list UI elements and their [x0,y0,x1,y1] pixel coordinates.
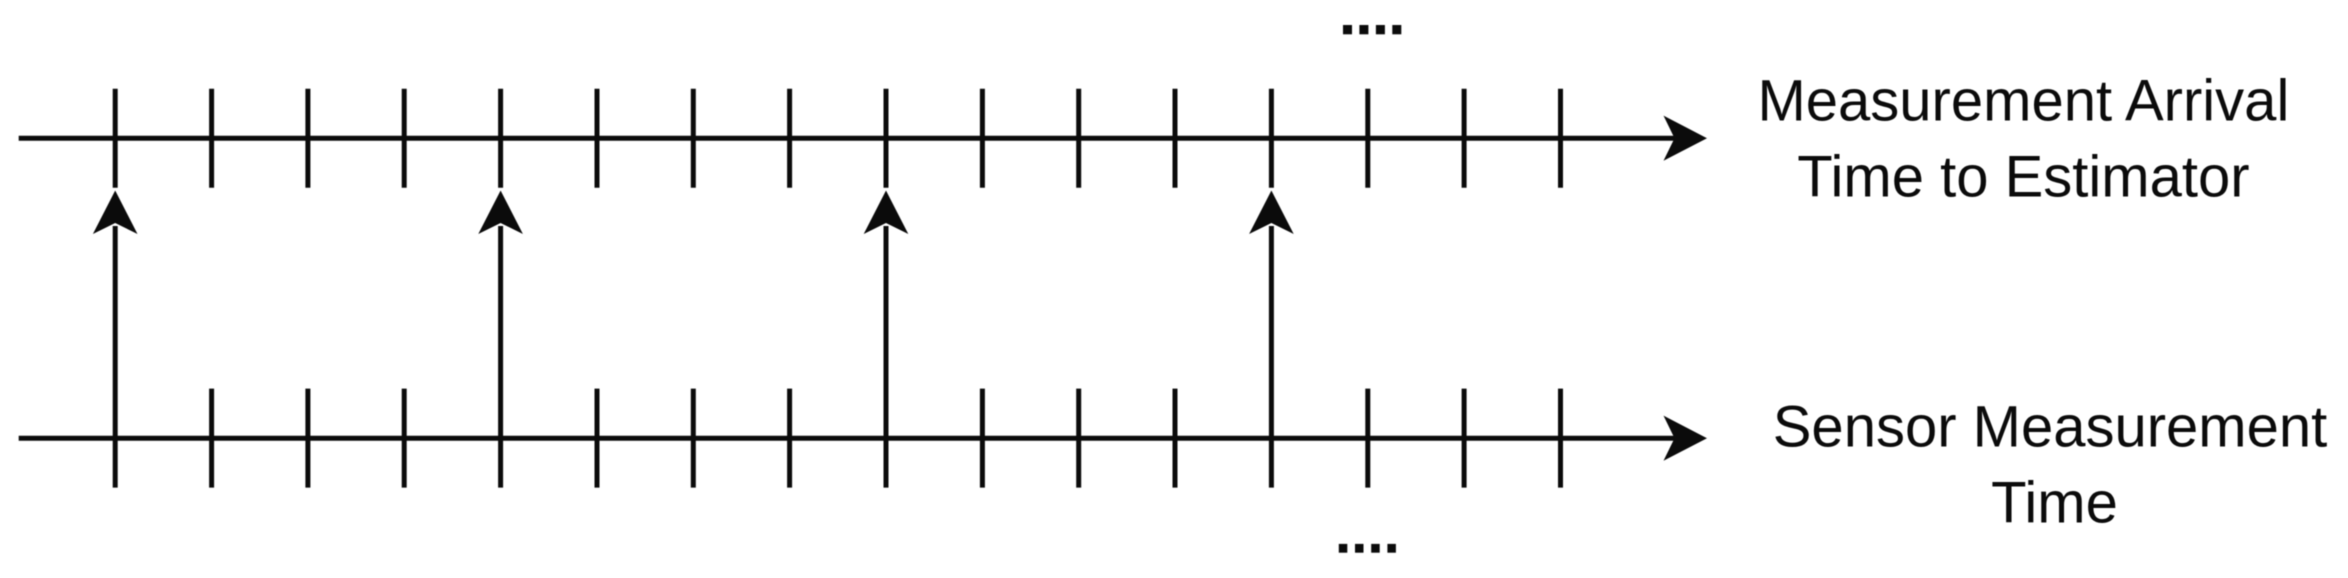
svg-text:Measurement Arrival: Measurement Arrival [1757,69,2289,134]
bottom timeline tick 8 [787,389,792,488]
svg-text:Sensor Measurement: Sensor Measurement [1773,395,2327,460]
svg-text:Time to Estimator: Time to Estimator [1797,145,2249,210]
bottom timeline tick 3 [305,389,310,488]
top timeline tick 5 [498,89,503,188]
bottom timeline tick 15 [1462,389,1467,488]
bottom timeline tick 10 [980,389,985,488]
measurement transfer arrow 2 shaft [498,226,503,488]
top timeline tick 1 [113,89,118,188]
ellipsis dots (bottom timeline continues) [1339,544,1348,553]
bottom timeline tick 4 [402,389,407,488]
measurement transfer arrow 1 shaft [113,226,118,488]
bottom timeline tick 16 [1558,389,1563,488]
measurement transfer arrow 4 head [1249,191,1294,235]
top timeline tick 11 [1076,89,1081,188]
top timeline tick 8 [787,89,792,188]
top timeline tick 15 [1462,89,1467,188]
bottom timeline tick 14 [1365,389,1370,488]
top timeline tick 7 [691,89,696,188]
top timeline tick 3 [305,89,310,188]
top timeline tick 2 [209,89,214,188]
measurement transfer arrow 2 head [478,191,523,235]
bottom timeline tick 7 [691,389,696,488]
top timeline tick 10 [980,89,985,188]
measurement transfer arrow 1 head [93,191,138,235]
bottom timeline tick 12 [1173,389,1178,488]
bottom timeline tick 6 [595,389,600,488]
bottom axis arrowhead [1664,416,1708,461]
top timeline tick 14 [1365,89,1370,188]
top timeline tick 16 [1558,89,1563,188]
top timeline tick 4 [402,89,407,188]
top axis arrowhead [1664,116,1708,161]
bottom timeline tick 11 [1076,389,1081,488]
measurement transfer arrow 3 head [864,191,909,235]
measurement transfer arrow 4 shaft [1269,226,1274,488]
measurement transfer arrow 3 shaft [884,226,889,488]
top timeline tick 6 [595,89,600,188]
top timeline tick 13 [1269,89,1274,188]
bottom timeline tick 2 [209,389,214,488]
top timeline tick 9 [884,89,889,188]
top timeline tick 12 [1173,89,1178,188]
svg-text:Time: Time [1991,471,2118,536]
bottom timeline axis (Sensor Measurement Time) [19,436,1676,441]
ellipsis dots (top timeline continues) [1343,25,1352,34]
top timeline axis (Measurement Arrival Time) [19,136,1676,141]
